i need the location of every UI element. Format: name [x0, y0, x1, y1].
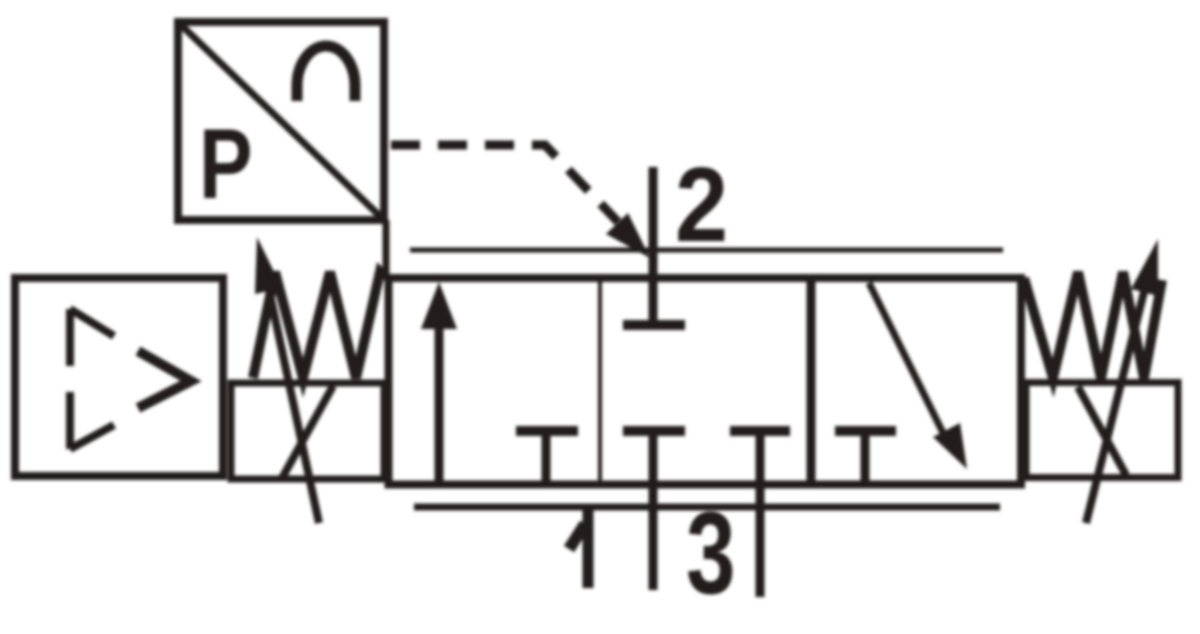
position b: blocked T1 stem	[649, 431, 658, 483]
amplifier triangle left dashed side	[66, 309, 74, 449]
port 3 stem	[756, 483, 765, 597]
position a: flow arrowhead	[421, 282, 457, 329]
left spring arrowhead	[255, 237, 282, 294]
position b: blocked T1 bar	[623, 426, 685, 436]
position c: flow arrow diagonal	[869, 283, 950, 447]
port 1 stem	[649, 483, 658, 590]
position c: flow arrowhead	[933, 423, 967, 469]
position b: port 2 blocked T bar	[623, 320, 685, 330]
pilot signal dashed line	[391, 145, 618, 222]
svg-text:3: 3	[686, 488, 735, 619]
pilot actuator box	[15, 278, 223, 476]
position a: blocked port T stem	[542, 431, 551, 483]
position a: blocked port T bar	[516, 426, 578, 436]
left solenoid box	[231, 383, 384, 479]
position c: blocked port T bar	[835, 426, 896, 436]
amplifier chevron	[138, 351, 191, 408]
link control block to valve	[383, 220, 390, 277]
amplifier triangle top dash	[70, 309, 114, 336]
svg-text:P: P	[199, 109, 252, 220]
right spring arrowhead	[1131, 239, 1158, 296]
right spring adjustment arrow	[1086, 276, 1148, 523]
label 1	[569, 505, 588, 588]
svg-text:2: 2	[675, 146, 728, 264]
left solenoid cross line	[281, 386, 333, 480]
left spring	[253, 272, 386, 378]
pressure signal arc	[297, 46, 355, 101]
position divider right	[807, 278, 816, 484]
position b: blocked T3 bar	[730, 426, 790, 436]
amplifier triangle bottom dash	[70, 425, 114, 449]
lower rail line	[414, 504, 1000, 511]
port 2 stem	[649, 167, 658, 325]
pilot signal arrowhead	[606, 213, 650, 258]
right solenoid cross line	[1078, 387, 1126, 475]
control block U1 (pressure transducer box)	[178, 22, 384, 220]
port 2 rail line	[410, 248, 1003, 253]
right solenoid box	[1026, 383, 1178, 478]
position b: blocked T3 stem	[756, 431, 765, 483]
left spring adjustment arrow	[266, 276, 319, 523]
position divider left	[598, 278, 602, 484]
valve envelope	[389, 278, 1022, 485]
position c: blocked port T stem	[861, 431, 870, 483]
right spring	[1024, 272, 1162, 378]
position a: flow arrow stem	[435, 322, 444, 483]
control block diagonal	[180, 24, 384, 220]
